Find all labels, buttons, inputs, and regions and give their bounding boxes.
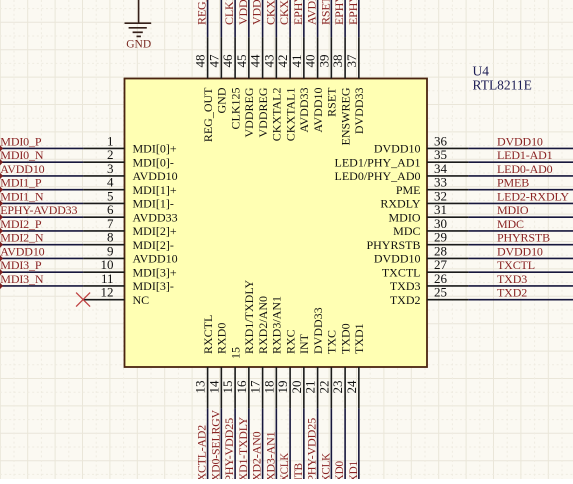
- wire net AVDD10 (pin 3): [0, 175, 83, 177]
- svg-text:36: 36: [434, 133, 448, 148]
- wire to top edge (pin 39): [330, 0, 332, 37]
- wire net MDI1_N (pin 5): [0, 202, 83, 204]
- svg-text:RXCTL-AD2: RXCTL-AD2: [195, 425, 209, 479]
- wire net TXD0 (pin 23): [344, 408, 346, 479]
- pin 31 (MDIO) right side: [389, 202, 469, 224]
- wire net DVDD10 (pin 28): [468, 257, 573, 259]
- svg-text:5: 5: [107, 188, 114, 203]
- svg-text:MDI3_P: MDI3_P: [0, 258, 42, 272]
- pin 3 (AVDD10) left side: [83, 161, 178, 183]
- wire net RXD0-SELRGV (pin 14): [220, 408, 222, 479]
- svg-text:22: 22: [316, 381, 331, 394]
- svg-text:LED2-RXDLY: LED2-RXDLY: [497, 189, 569, 203]
- wire to top edge (pin 47): [220, 0, 222, 37]
- wire net RXCTL-AD2 (pin 13): [207, 408, 209, 479]
- pin 7 (MDI[2]+) left side: [83, 216, 177, 238]
- pin 14 (RXD0) bottom side: [206, 323, 228, 409]
- svg-text:29: 29: [434, 230, 447, 245]
- svg-text:CLK125: CLK125: [222, 0, 236, 25]
- wire to top edge (pin 38): [344, 0, 346, 37]
- svg-text:47: 47: [206, 54, 221, 68]
- svg-text:16: 16: [234, 380, 249, 394]
- svg-text:MDI0_N: MDI0_N: [0, 148, 44, 162]
- svg-text:MDI[0]-: MDI[0]-: [133, 155, 174, 169]
- svg-text:VDDREG: VDDREG: [250, 0, 264, 25]
- pin 2 (MDI[0]-) left side: [83, 147, 174, 169]
- pin 12 (NC) left side: [83, 285, 149, 307]
- pin 8 (MDI[2]-) left side: [83, 230, 174, 252]
- svg-text:MDI[0]+: MDI[0]+: [133, 142, 177, 156]
- svg-text:31: 31: [434, 202, 447, 217]
- pin 19 (RXC) bottom side: [275, 329, 297, 408]
- svg-text:RXD0: RXD0: [215, 323, 229, 354]
- svg-text:LED0/PHY_AD0: LED0/PHY_AD0: [335, 169, 421, 183]
- svg-text:MDI[3]-: MDI[3]-: [133, 279, 174, 293]
- port arrow stub MDI2_P: [0, 228, 3, 234]
- svg-text:MDI[2]-: MDI[2]-: [133, 238, 174, 252]
- wire to top edge (pin 48): [207, 0, 209, 37]
- svg-text:45: 45: [234, 55, 249, 68]
- pin 28 (DVDD10) right side: [374, 243, 469, 265]
- svg-text:AVDD33: AVDD33: [133, 210, 178, 224]
- svg-text:NC: NC: [133, 293, 150, 307]
- pin 25 (TXD2) right side: [390, 285, 469, 307]
- wire to top edge (pin 44): [262, 0, 264, 37]
- wire net TXD1 (pin 24): [358, 408, 360, 479]
- wire net RXD2-AN0 (pin 17): [262, 408, 264, 479]
- svg-text:7: 7: [107, 216, 114, 231]
- svg-text:6: 6: [107, 202, 114, 217]
- svg-text:CKXTAL1: CKXTAL1: [277, 0, 291, 25]
- wire net RXCLK (pin 19): [289, 408, 291, 479]
- svg-text:TXD0: TXD0: [338, 323, 352, 354]
- svg-text:REG_OUT: REG_OUT: [195, 0, 209, 25]
- svg-text:INTB: INTB: [291, 463, 305, 479]
- svg-text:TXCLK: TXCLK: [318, 453, 332, 479]
- svg-text:3: 3: [107, 161, 114, 176]
- svg-text:TXD0: TXD0: [332, 461, 346, 479]
- wire net TXCTL (pin 27): [468, 271, 573, 273]
- svg-text:44: 44: [248, 54, 263, 68]
- svg-text:MDI3_N: MDI3_N: [0, 272, 44, 286]
- svg-text:14: 14: [206, 380, 221, 394]
- svg-text:RXCTL: RXCTL: [201, 315, 215, 354]
- svg-text:RSET: RSET: [325, 87, 339, 117]
- wire net MDI0_N (pin 2): [0, 161, 83, 163]
- port arrow stub AVDD10: [0, 255, 3, 261]
- wire to top edge (pin 40): [317, 0, 319, 37]
- pin 4 (MDI[1]+) left side: [83, 175, 177, 197]
- pin 26 (TXD3) right side: [390, 271, 469, 293]
- svg-text:MDC: MDC: [497, 217, 524, 231]
- svg-text:11: 11: [101, 271, 114, 286]
- pin 43 (CKXTAL2) top side: [261, 37, 283, 141]
- wire net EPHY-VDD25 (pin 21): [317, 408, 319, 479]
- svg-text:AVDD10: AVDD10: [0, 244, 44, 258]
- pin 47 (GND) top side: [206, 37, 228, 113]
- svg-text:46: 46: [220, 54, 235, 68]
- svg-text:RXD0-SELRGV: RXD0-SELRGV: [208, 410, 222, 479]
- pin 37 (DVDD33) top side: [344, 37, 366, 134]
- svg-text:35: 35: [434, 147, 447, 162]
- pin 9 (AVDD10) left side: [83, 243, 178, 265]
- pin 39 (RSET) top side: [316, 37, 338, 117]
- pin 41 (AVDD33) top side: [289, 37, 311, 133]
- pin 48 (REG_OUT) top side: [193, 37, 215, 142]
- svg-text:MDI[2]+: MDI[2]+: [133, 224, 177, 238]
- svg-text:25: 25: [434, 285, 447, 300]
- pin 24 (TXD1) bottom side: [344, 323, 366, 408]
- svg-text:MDI[1]+: MDI[1]+: [133, 183, 177, 197]
- wire net TXD2 (pin 25): [468, 299, 573, 301]
- svg-text:CKXTAL2: CKXTAL2: [263, 0, 277, 25]
- pin 30 (MDC) right side: [393, 216, 468, 238]
- pin 13 (RXCTL) bottom side: [193, 315, 215, 409]
- svg-text:RXD1-TXDLY: RXD1-TXDLY: [236, 417, 250, 479]
- svg-text:RXDLY: RXDLY: [380, 197, 420, 211]
- pin 10 (MDI[3]+) left side: [83, 257, 177, 279]
- svg-text:EPHY-VDD25: EPHY-VDD25: [332, 0, 346, 25]
- wire net RXD3-AN1 (pin 18): [275, 408, 277, 479]
- svg-text:DVDD10: DVDD10: [497, 134, 543, 148]
- svg-text:2: 2: [107, 147, 114, 162]
- svg-text:LED1/PHY_AD1: LED1/PHY_AD1: [335, 155, 421, 169]
- wire net MDIO (pin 31): [468, 216, 573, 218]
- svg-text:LED1-AD1: LED1-AD1: [497, 148, 553, 162]
- svg-text:TXCTL: TXCTL: [497, 258, 535, 272]
- svg-text:DVDD33: DVDD33: [352, 88, 366, 135]
- pin 5 (MDI[1]-) left side: [83, 188, 174, 210]
- wire net PMEB (pin 33): [468, 189, 573, 191]
- port arrow stub MDI0_N: [0, 159, 3, 165]
- svg-text:PHYRSTB: PHYRSTB: [497, 231, 550, 245]
- svg-text:EPHY-AVDD33: EPHY-AVDD33: [291, 0, 305, 25]
- wire net EPHY-VDD25 (pin 15): [234, 408, 236, 479]
- wire to top edge (pin 45): [248, 0, 250, 37]
- svg-text:CLK125: CLK125: [228, 87, 242, 129]
- svg-text:MDIO: MDIO: [389, 210, 421, 224]
- svg-text:RXCLK: RXCLK: [277, 453, 291, 479]
- svg-text:32: 32: [434, 188, 447, 203]
- wire net MDC (pin 30): [468, 230, 573, 232]
- wire net MDI3_N (pin 11): [0, 285, 83, 287]
- pin 40 (AVDD10) top side: [303, 37, 325, 133]
- svg-text:RXD2-AN0: RXD2-AN0: [250, 431, 264, 479]
- port arrow stub MDI1_P: [0, 186, 3, 192]
- svg-text:19: 19: [275, 381, 290, 394]
- svg-text:RXD1/TXDLY: RXD1/TXDLY: [242, 280, 256, 354]
- svg-text:34: 34: [434, 161, 448, 176]
- wire net MDI1_P (pin 4): [0, 189, 83, 191]
- svg-text:15: 15: [220, 381, 235, 394]
- svg-text:15: 15: [228, 347, 242, 359]
- pin 21 (DVDD33) bottom side: [303, 307, 325, 408]
- pin 44 (VDDREG) top side: [248, 37, 270, 137]
- svg-text:4: 4: [107, 175, 114, 190]
- wire net MDI0_P (pin 1): [0, 147, 83, 149]
- svg-text:RXC: RXC: [283, 329, 297, 354]
- svg-text:DVDD10: DVDD10: [497, 244, 543, 258]
- port arrow stub EPHY-AVDD33: [0, 214, 3, 220]
- svg-text:MDC: MDC: [393, 224, 420, 238]
- pin 38 (ENSWREG) top side: [330, 37, 352, 145]
- svg-text:ENSWREG: ENSWREG: [338, 87, 352, 145]
- wire to top edge (pin 41): [303, 0, 305, 37]
- wire net INTB (pin 20): [303, 408, 305, 479]
- svg-text:AVDD33: AVDD33: [297, 88, 311, 133]
- pin 6 (AVDD33) left side: [83, 202, 178, 224]
- pin 22 (TXC) bottom side: [316, 330, 338, 408]
- svg-text:27: 27: [434, 257, 448, 272]
- svg-text:MDI1_N: MDI1_N: [0, 189, 44, 203]
- svg-text:40: 40: [303, 55, 318, 68]
- wire net LED0-AD0 (pin 34): [468, 175, 573, 177]
- wire net DVDD10 (pin 36): [468, 147, 573, 149]
- wire net PHYRSTB (pin 29): [468, 244, 573, 246]
- svg-text:GND: GND: [215, 87, 229, 113]
- port arrow stub MDI2_N: [0, 241, 3, 247]
- svg-text:38: 38: [330, 55, 345, 68]
- wire net MDI2_P (pin 7): [0, 230, 83, 232]
- wire net MDI3_P (pin 10): [0, 271, 83, 273]
- pin 29 (PHYRSTB) right side: [366, 230, 468, 252]
- svg-text:48: 48: [193, 55, 208, 68]
- svg-text:RXD2/AN0: RXD2/AN0: [256, 296, 270, 354]
- svg-text:MDI2_P: MDI2_P: [0, 217, 42, 231]
- port arrow stub MDI0_P: [0, 145, 3, 151]
- wire net RXD1-TXDLY (pin 16): [248, 408, 250, 479]
- svg-text:TXD1: TXD1: [346, 461, 360, 479]
- svg-text:VDDREG: VDDREG: [236, 0, 250, 25]
- svg-text:10: 10: [101, 257, 114, 272]
- pin 11 (MDI[3]-) left side: [83, 271, 174, 293]
- svg-text:20: 20: [289, 381, 304, 394]
- pin 23 (TXD0) bottom side: [330, 323, 352, 408]
- svg-text:TXD1: TXD1: [352, 323, 366, 354]
- svg-text:PMEB: PMEB: [497, 176, 529, 190]
- wire to top edge (pin 42): [289, 0, 291, 37]
- svg-text:1: 1: [107, 133, 114, 148]
- svg-text:24: 24: [344, 380, 359, 394]
- wire to top edge (pin 46): [234, 0, 236, 37]
- svg-text:DVDD10: DVDD10: [374, 252, 421, 266]
- pin 16 (RXD1/TXDLY) bottom side: [234, 280, 256, 409]
- svg-text:TXC: TXC: [325, 330, 339, 354]
- pin 34 (LED0/PHY_AD0) right side: [335, 161, 469, 183]
- svg-text:LED0-AD0: LED0-AD0: [497, 162, 553, 176]
- svg-text:37: 37: [344, 54, 359, 68]
- svg-text:26: 26: [434, 271, 448, 286]
- port arrow stub AVDD10: [0, 173, 3, 179]
- svg-text:MDI2_N: MDI2_N: [0, 231, 44, 245]
- svg-text:DVDD10: DVDD10: [374, 142, 421, 156]
- pin 27 (TXCTL) right side: [382, 257, 469, 279]
- pin 20 (INT) bottom side: [289, 333, 311, 408]
- svg-text:39: 39: [316, 55, 331, 68]
- port arrow stub MDI1_N: [0, 200, 3, 206]
- svg-text:AVDD10: AVDD10: [305, 0, 319, 25]
- pin 15 (15) bottom side: [220, 347, 242, 408]
- svg-text:REG_OUT: REG_OUT: [201, 87, 215, 142]
- wire GND stem: [138, 0, 140, 23]
- pin 46 (CLK125) top side: [220, 37, 242, 129]
- no-ERC marker on pin 12: [76, 293, 90, 307]
- svg-text:EPHY-AVDD33: EPHY-AVDD33: [0, 203, 77, 217]
- svg-text:PHYRSTB: PHYRSTB: [366, 238, 420, 252]
- pin 17 (RXD2/AN0) bottom side: [248, 296, 270, 408]
- svg-text:RSET: RSET: [318, 0, 332, 25]
- svg-text:VDDREG: VDDREG: [256, 87, 270, 137]
- svg-text:12: 12: [101, 285, 114, 300]
- pin 45 (VDDREG) top side: [234, 37, 256, 137]
- port arrow stub MDI3_P: [0, 269, 3, 275]
- svg-text:13: 13: [193, 381, 208, 394]
- svg-text:EPHY-VDD25: EPHY-VDD25: [305, 418, 319, 479]
- svg-text:23: 23: [330, 381, 345, 394]
- svg-text:8: 8: [107, 230, 114, 245]
- svg-text:18: 18: [261, 381, 276, 394]
- svg-text:U4: U4: [473, 63, 490, 78]
- svg-text:TXD3: TXD3: [497, 272, 527, 286]
- svg-text:VDDREG: VDDREG: [242, 87, 256, 137]
- wire net EPHY-AVDD33 (pin 6): [0, 216, 83, 218]
- pin 35 (LED1/PHY_AD1) right side: [335, 147, 469, 169]
- wire net LED2-RXDLY (pin 32): [468, 202, 573, 204]
- svg-text:9: 9: [107, 243, 114, 258]
- pin 18 (RXD3/AN1) bottom side: [261, 296, 283, 408]
- pin 1 (MDI[0]+) left side: [83, 133, 177, 155]
- svg-text:MDI1_P: MDI1_P: [0, 176, 42, 190]
- svg-text:43: 43: [261, 55, 276, 68]
- svg-text:AVDD10: AVDD10: [133, 252, 178, 266]
- svg-text:MDI[1]-: MDI[1]-: [133, 197, 174, 211]
- svg-text:MDI[3]+: MDI[3]+: [133, 265, 177, 279]
- svg-text:INT: INT: [297, 333, 311, 354]
- svg-text:MDIO: MDIO: [497, 203, 529, 217]
- wire net MDI2_N (pin 8): [0, 244, 83, 246]
- svg-text:CKXTAL2: CKXTAL2: [270, 88, 284, 142]
- svg-text:21: 21: [303, 381, 318, 394]
- svg-text:EPHY-VDD33: EPHY-VDD33: [346, 0, 360, 25]
- svg-text:AVDD10: AVDD10: [311, 88, 325, 133]
- svg-text:TXD2: TXD2: [497, 286, 527, 300]
- wire net TXD3 (pin 26): [468, 285, 573, 287]
- svg-text:30: 30: [434, 216, 447, 231]
- svg-text:PME: PME: [396, 183, 421, 197]
- svg-text:28: 28: [434, 243, 447, 258]
- svg-text:TXD2: TXD2: [390, 293, 421, 307]
- svg-text:TXD3: TXD3: [390, 279, 421, 293]
- svg-text:17: 17: [248, 380, 263, 394]
- svg-text:EPHY-VDD25: EPHY-VDD25: [222, 418, 236, 479]
- wire net LED1-AD1 (pin 35): [468, 161, 573, 163]
- IC U4 RTL8211E body: [125, 79, 428, 368]
- svg-text:TXCTL: TXCTL: [382, 265, 421, 279]
- svg-text:MDI0_P: MDI0_P: [0, 134, 42, 148]
- svg-text:42: 42: [275, 55, 290, 68]
- svg-text:RXD3-AN1: RXD3-AN1: [263, 431, 277, 479]
- svg-text:RTL8211E: RTL8211E: [473, 77, 532, 92]
- wire to top edge (pin 43): [275, 0, 277, 37]
- svg-text:DVDD33: DVDD33: [311, 307, 325, 354]
- ground symbol GND: [125, 23, 152, 36]
- pin 32 (RXDLY) right side: [380, 188, 468, 210]
- svg-text:RXD3/AN1: RXD3/AN1: [270, 296, 284, 354]
- svg-text:AVDD10: AVDD10: [0, 162, 44, 176]
- svg-text:41: 41: [289, 55, 304, 68]
- pin 36 (DVDD10) right side: [374, 133, 469, 155]
- wire net AVDD10 (pin 9): [0, 257, 83, 259]
- svg-text:GND: GND: [126, 39, 151, 51]
- port arrow stub MDI3_N: [0, 283, 3, 289]
- pin 42 (CKXTAL1) top side: [275, 37, 297, 141]
- svg-text:CKXTAL1: CKXTAL1: [283, 88, 297, 142]
- svg-text:33: 33: [434, 175, 447, 190]
- pin 33 (PME) right side: [396, 175, 469, 197]
- wire to top edge (pin 37): [358, 0, 360, 37]
- wire net TXCLK (pin 22): [330, 408, 332, 479]
- svg-text:AVDD10: AVDD10: [133, 169, 178, 183]
